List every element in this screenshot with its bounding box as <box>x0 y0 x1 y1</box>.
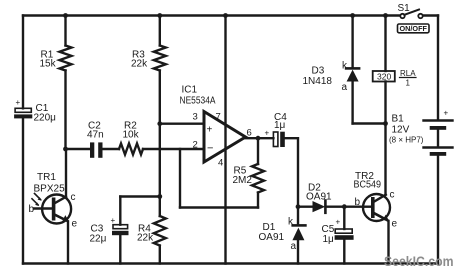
svg-text:6: 6 <box>247 128 252 139</box>
svg-text:(8 × HP7): (8 × HP7) <box>389 136 424 145</box>
svg-text:47n: 47n <box>87 130 104 141</box>
svg-text:+: + <box>265 129 270 138</box>
svg-text:NE5534A: NE5534A <box>180 96 216 107</box>
svg-text:−: − <box>207 143 213 155</box>
svg-text:OA91: OA91 <box>259 232 285 243</box>
svg-text:+: + <box>336 218 341 227</box>
diode D2 <box>313 201 326 213</box>
svg-text:B1: B1 <box>392 114 405 125</box>
op-amp U1 triangle <box>204 112 246 163</box>
resistor R1 <box>60 46 72 71</box>
svg-text:a: a <box>342 82 348 93</box>
relay coil RLA/1 <box>373 71 395 82</box>
switch S1 <box>400 10 422 19</box>
svg-text:BC549: BC549 <box>354 180 382 191</box>
wire top rail right section <box>423 14 439 16</box>
diode D3 <box>346 68 359 81</box>
wire D3 bottom to joint <box>351 82 353 124</box>
svg-text:320: 320 <box>377 72 391 82</box>
svg-text:ON/OFF: ON/OFF <box>400 24 428 33</box>
wire top rail left section <box>23 14 401 16</box>
svg-text:1: 1 <box>406 79 411 88</box>
wire TR2 emitter to bottom rail <box>387 221 389 264</box>
wire output pin6 to C4 <box>246 137 274 139</box>
svg-text:b: b <box>355 197 361 208</box>
svg-text:IC1: IC1 <box>182 85 198 96</box>
svg-text:RLA: RLA <box>400 69 416 78</box>
svg-text:2: 2 <box>193 140 198 151</box>
svg-text:D3: D3 <box>312 66 325 77</box>
wire pin7/pin4 vertical through op-amp <box>224 16 226 264</box>
svg-text:7: 7 <box>216 112 221 123</box>
wire R5 bottom lead <box>257 193 259 208</box>
svg-text:+: + <box>111 216 116 225</box>
transistor TR1 <box>34 195 71 224</box>
battery B1 <box>424 121 453 156</box>
wire left rail <box>22 16 24 109</box>
wire C3/R4 horizontal <box>120 195 160 197</box>
wire pin3 input <box>160 122 204 124</box>
svg-text:4: 4 <box>218 158 223 169</box>
wire C2 to R2 <box>103 148 120 150</box>
wire D3/relay joint horizontal <box>353 122 386 124</box>
svg-text:22k: 22k <box>137 233 154 244</box>
wire D1 top lead <box>297 207 299 225</box>
wire TR1 emitter to bottom rail <box>67 222 69 264</box>
svg-text:15k: 15k <box>40 59 57 70</box>
wire feedback vertical from pin2 <box>179 149 181 208</box>
wire TR1 collector lead down from C2 node <box>65 149 67 197</box>
svg-text:10k: 10k <box>123 130 140 141</box>
svg-text:a: a <box>291 241 297 252</box>
resistor R4 <box>154 216 166 245</box>
svg-text:+: + <box>16 98 21 107</box>
svg-text:TR1: TR1 <box>37 172 56 183</box>
transistor TR2 <box>363 194 390 221</box>
svg-text:SeekIC.com: SeekIC.com <box>384 254 454 269</box>
capacitor C2 <box>90 142 103 157</box>
capacitor C3 <box>112 225 129 236</box>
wire D3 branch from top rail <box>351 16 353 68</box>
svg-text:22μ: 22μ <box>90 234 107 245</box>
svg-text:S1: S1 <box>398 3 411 14</box>
wire right rail mid (between battery cells) <box>437 130 439 147</box>
wire C5 bottom lead <box>343 240 345 264</box>
wire bottom rail <box>23 262 438 264</box>
wire divider line R3 bottom to R4 top <box>159 71 161 217</box>
svg-text:22k: 22k <box>131 59 148 70</box>
svg-text:12V: 12V <box>392 125 410 136</box>
svg-text:2M2: 2M2 <box>233 175 253 186</box>
svg-text:b: b <box>29 204 35 215</box>
svg-text:+: + <box>207 125 213 136</box>
wire D2 to TR2 base <box>327 205 364 207</box>
RLA underline <box>400 77 417 79</box>
svg-text:1N418: 1N418 <box>303 76 333 87</box>
capacitor C4 <box>273 132 284 147</box>
wire C5 top lead <box>343 207 345 229</box>
svg-text:OA91: OA91 <box>306 192 332 203</box>
wire R3 branch from top rail <box>159 16 161 46</box>
wire relay bottom to TR2 collector <box>384 82 386 195</box>
svg-text:e: e <box>72 219 78 230</box>
svg-text:c: c <box>71 192 76 203</box>
wire R1 bottom to C2 node <box>64 71 66 150</box>
wire C4 to corner <box>285 138 298 207</box>
wire feedback horizontal <box>180 206 258 208</box>
TR1 light arrows <box>32 194 42 207</box>
wire right rail upper <box>437 16 439 120</box>
capacitor C5 <box>335 229 354 240</box>
svg-text:+: + <box>444 109 449 118</box>
svg-text:c: c <box>390 190 395 201</box>
svg-text:1μ: 1μ <box>323 234 335 245</box>
wire C3 top lead <box>119 197 121 225</box>
resistor R5 <box>252 164 264 193</box>
svg-text:3: 3 <box>193 112 198 123</box>
wire R4 bottom to bottom rail <box>159 246 161 264</box>
svg-text:BPX25: BPX25 <box>34 184 66 195</box>
resistor R3 <box>154 46 166 71</box>
wire D1 bottom to bottom rail <box>297 240 299 263</box>
wire D1/D2 node to D2 <box>298 205 313 207</box>
wire relay branch from top rail <box>384 16 386 72</box>
diode D1 <box>292 225 305 240</box>
wire R2 to pin2 <box>143 148 204 150</box>
wire left rail lower <box>22 119 24 264</box>
svg-text:e: e <box>392 219 398 230</box>
ON/OFF label box <box>398 24 430 33</box>
wire C3 bottom lead <box>119 235 121 263</box>
svg-text:220μ: 220μ <box>34 113 57 124</box>
wire right rail lower <box>437 156 439 264</box>
wire R5 top lead to output node <box>257 138 259 164</box>
capacitor C1 <box>14 108 32 118</box>
resistor R2 <box>119 144 143 155</box>
svg-text:1μ: 1μ <box>274 120 286 131</box>
wire pin2 input from C2 node to C2 <box>66 148 91 150</box>
wire R1 branch from top rail <box>64 16 66 46</box>
